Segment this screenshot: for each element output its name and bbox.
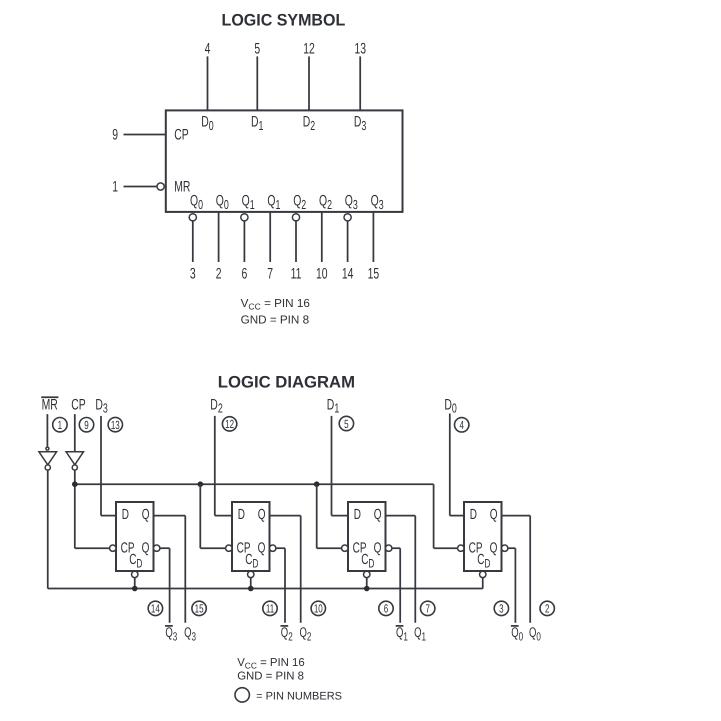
- svg-text:Q: Q: [258, 540, 266, 556]
- svg-text:14: 14: [151, 602, 160, 616]
- svg-text:GND = PIN 8: GND = PIN 8: [237, 670, 304, 682]
- svg-text:MR: MR: [174, 179, 190, 196]
- svg-text:Q: Q: [490, 540, 498, 556]
- svg-text:2: 2: [545, 602, 549, 616]
- svg-text:9: 9: [84, 418, 88, 432]
- svg-text:11: 11: [266, 602, 274, 616]
- svg-text:3: 3: [499, 602, 504, 616]
- svg-text:1: 1: [112, 179, 118, 196]
- svg-text:CP: CP: [71, 396, 85, 413]
- svg-text:3: 3: [190, 265, 196, 282]
- svg-text:1: 1: [58, 418, 62, 432]
- svg-text:4: 4: [205, 41, 211, 58]
- svg-text:6: 6: [384, 602, 389, 616]
- svg-text:5: 5: [344, 417, 349, 431]
- svg-text:6: 6: [242, 265, 248, 282]
- svg-text:7: 7: [425, 602, 429, 616]
- svg-text:LOGIC DIAGRAM: LOGIC DIAGRAM: [218, 373, 355, 392]
- svg-text:12: 12: [225, 417, 234, 431]
- svg-text:4: 4: [459, 418, 464, 432]
- svg-text:2: 2: [216, 265, 222, 282]
- svg-text:Q: Q: [142, 540, 150, 556]
- svg-text:12: 12: [303, 41, 315, 58]
- svg-text:Q: Q: [142, 507, 150, 523]
- svg-text:15: 15: [368, 265, 380, 282]
- svg-text:15: 15: [195, 602, 204, 616]
- svg-text:Q: Q: [374, 507, 382, 523]
- svg-text:7: 7: [267, 265, 273, 282]
- svg-text:MR: MR: [42, 396, 58, 413]
- svg-text:Q: Q: [374, 540, 382, 556]
- svg-text:13: 13: [111, 418, 120, 432]
- svg-text:D: D: [122, 507, 129, 523]
- svg-text:5: 5: [254, 41, 260, 58]
- svg-text:11: 11: [291, 265, 302, 282]
- svg-text:Q: Q: [258, 507, 266, 523]
- svg-text:D: D: [354, 507, 361, 523]
- svg-text:10: 10: [314, 602, 323, 616]
- svg-text:GND = PIN 8: GND = PIN 8: [241, 313, 310, 326]
- svg-text:LOGIC SYMBOL: LOGIC SYMBOL: [222, 11, 346, 30]
- svg-text:D: D: [238, 507, 245, 523]
- svg-text:= PIN NUMBERS: = PIN NUMBERS: [256, 690, 342, 702]
- svg-text:9: 9: [112, 127, 118, 144]
- svg-text:Q: Q: [490, 507, 498, 523]
- svg-text:14: 14: [342, 265, 354, 282]
- svg-text:D: D: [470, 507, 477, 523]
- svg-text:10: 10: [316, 265, 328, 282]
- svg-text:13: 13: [354, 41, 366, 58]
- svg-text:CP: CP: [174, 127, 188, 144]
